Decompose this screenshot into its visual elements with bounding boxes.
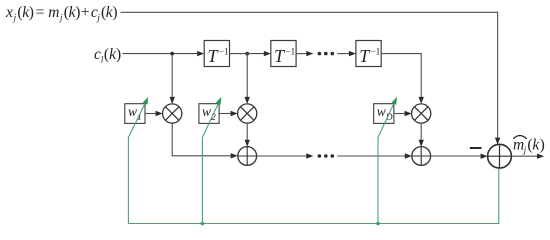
node ellipsis dots summer line bbox=[318, 154, 335, 158]
wire multiplier1 down and right to summer 1 bbox=[172, 123, 234, 156]
svg-text:−1: −1 bbox=[371, 47, 381, 57]
node output label m-hat_j(k) bbox=[513, 136, 545, 155]
wire delay3 out to last tap corner bbox=[381, 54, 421, 100]
svg-text:−1: −1 bbox=[286, 47, 296, 57]
multiplier X1 bbox=[163, 104, 182, 123]
summer S1 bbox=[238, 147, 257, 166]
wire output arrow bbox=[511, 155, 540, 157]
node junction tap 2 bbox=[245, 52, 249, 56]
wire delay1 to delay2 bbox=[230, 53, 267, 55]
wire tap2 down to multiplier 2 bbox=[246, 54, 248, 100]
wire w2 to multiplier 2 bbox=[219, 113, 234, 115]
delay block T^-1 #3 bbox=[356, 41, 381, 67]
summer S3 final bbox=[488, 144, 512, 168]
weight block w2 bbox=[199, 104, 219, 124]
svg-text:cl(k): cl(k) bbox=[94, 46, 121, 65]
arrowhead into final summer top bbox=[495, 138, 500, 145]
wire multiplier2 down to summer 1 bbox=[246, 123, 248, 143]
weight block wD bbox=[374, 104, 394, 124]
node ellipsis dots delay line bbox=[318, 52, 335, 56]
wire green feedback up to w2 bbox=[202, 100, 219, 223]
wire ellipsis to summer 2 bbox=[337, 155, 408, 157]
wire ellipsis to delay3 bbox=[337, 53, 352, 55]
wire w1 to multiplier 1 bbox=[145, 113, 159, 115]
node green junction dot w2 bbox=[201, 222, 205, 226]
multiplier X2 bbox=[238, 104, 257, 123]
delay block T^-1 #1 bbox=[204, 41, 229, 67]
wire delay2 to ellipsis bbox=[296, 53, 309, 55]
wire green feedback up to w1 bbox=[128, 100, 146, 223]
node green junction dot wD bbox=[376, 222, 380, 226]
wire wD to multiplier 3 bbox=[394, 113, 408, 115]
node junction tap 1 bbox=[170, 52, 174, 56]
summer S2 bbox=[412, 147, 431, 166]
node minus sign bbox=[470, 147, 482, 149]
wire tap1 down to multiplier 1 bbox=[171, 54, 173, 100]
weight block w1 bbox=[125, 104, 145, 124]
wire c_l(k) to first delay bbox=[123, 53, 201, 55]
wire summer1 to ellipsis bbox=[257, 155, 310, 157]
wire green feedback up to wD bbox=[378, 100, 395, 223]
wire multiplier3 down to summer 2 bbox=[420, 123, 422, 143]
wire x_j(k) top line to right then down to final summer bbox=[121, 12, 498, 141]
multiplier X3 bbox=[412, 104, 431, 123]
svg-text:mj(k): mj(k) bbox=[513, 136, 545, 155]
wire green feedback from final summer bottom bbox=[128, 168, 498, 223]
delay block T^-1 #2 bbox=[271, 41, 296, 67]
svg-text:−1: −1 bbox=[219, 47, 229, 57]
wire summer2 to final summer bbox=[431, 155, 484, 157]
